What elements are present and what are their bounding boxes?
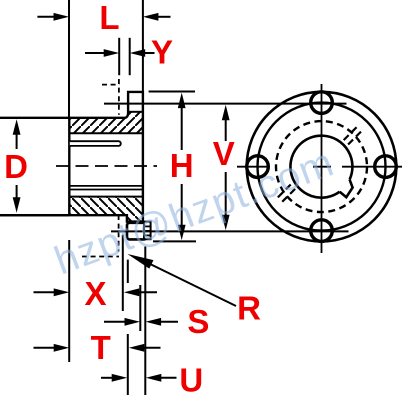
bore top line — [69, 132, 143, 134]
svg-text:L: L — [99, 0, 119, 36]
hub cross-section hatch bottom band — [69, 197, 143, 222]
hidden dashed corner upper — [102, 84, 119, 86]
hub body outline — [0, 92, 143, 222]
bottom hatch band top line — [69, 196, 143, 198]
R leader — [128, 254, 237, 306]
bolt hole right — [375, 156, 397, 178]
extension line P — [122, 235, 124, 311]
hub cross-section hatch top band — [69, 112, 143, 133]
hidden slot dashes SW — [277, 185, 296, 204]
svg-text:R: R — [237, 290, 261, 327]
bore bottom line — [69, 185, 143, 187]
screw head rib 2 — [144, 230, 150, 232]
bolt hole top — [311, 92, 333, 114]
extension line Q — [127, 260, 129, 395]
screw head rib 3 — [144, 234, 150, 236]
extension line D2 — [139, 285, 141, 331]
flange face line under lip — [128, 111, 143, 113]
bolt hole bottom — [311, 220, 333, 242]
bore circle with keyway gap — [290, 136, 352, 198]
svg-text:S: S — [187, 303, 209, 340]
U dimension — [101, 374, 177, 382]
hub left edge — [68, 118, 70, 215]
svg-text:X: X — [84, 275, 106, 312]
svg-text:U: U — [179, 362, 203, 395]
cap screw body — [127, 223, 146, 240]
hidden flange face dashed upper — [118, 79, 120, 115]
hidden flange face dashed lower — [118, 215, 120, 252]
svg-text:Y: Y — [151, 34, 173, 71]
svg-text:D: D — [4, 148, 28, 185]
X/T left extension line — [68, 240, 70, 362]
H dimension — [149, 92, 196, 242]
cap screw head — [144, 222, 151, 240]
keyway line — [69, 189, 143, 191]
front view vertical center line — [321, 84, 323, 253]
X dimension — [34, 288, 158, 296]
bolt hole left — [247, 156, 269, 178]
svg-text:T: T — [91, 329, 111, 366]
front view bolt hole circle — [258, 103, 386, 231]
front view horizontal center line — [237, 166, 402, 168]
screw head rib 1 — [144, 225, 150, 227]
svg-text:H: H — [170, 147, 194, 184]
V dimension — [104, 104, 349, 232]
svg-text:V: V — [213, 135, 235, 172]
keyway notch — [340, 180, 353, 198]
S dimension — [104, 318, 178, 326]
hidden dashed corner lower — [82, 256, 119, 258]
Y dimension — [85, 38, 155, 75]
L dimension — [37, 0, 170, 118]
extension line C — [144, 247, 146, 395]
front view hidden barrel circle — [276, 121, 367, 212]
D dimension — [0, 119, 69, 215]
front view outer circle — [247, 92, 397, 242]
saw slot — [70, 141, 121, 146]
hidden slot dashes NE — [344, 126, 363, 145]
side view center line — [56, 165, 157, 167]
T dimension — [34, 344, 161, 352]
